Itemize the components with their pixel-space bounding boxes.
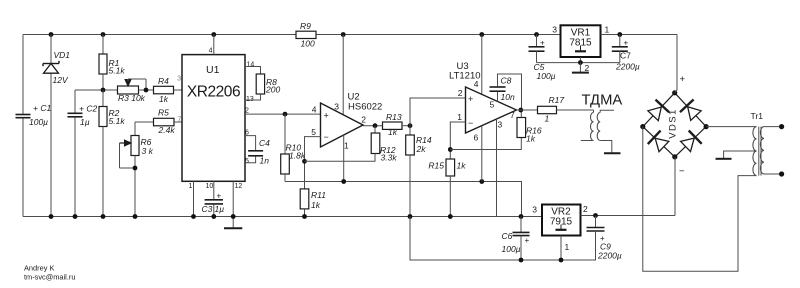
terminal Tr1 secondary top — [779, 124, 784, 129]
wire top rail left segment — [23, 34, 296, 36]
pin number U3 pin1 — [457, 112, 462, 122]
capacitor C7 — [612, 35, 628, 63]
node junction R15 bottom — [448, 214, 453, 219]
ground VR1 — [572, 63, 589, 73]
resistor R14 — [406, 126, 415, 217]
svg-text:2k: 2k — [416, 144, 427, 154]
svg-text:+: + — [540, 39, 545, 48]
label C1 value — [29, 117, 48, 127]
svg-text:2: 2 — [585, 63, 590, 73]
svg-text:200: 200 — [265, 85, 280, 95]
svg-text:+: + — [324, 111, 329, 121]
label U3 minus input — [468, 118, 473, 128]
svg-text:3: 3 — [498, 120, 503, 130]
pin number U1 pin10 — [206, 183, 214, 190]
svg-text:3: 3 — [532, 205, 537, 215]
svg-text:100µ: 100µ — [537, 71, 556, 81]
transformer TDMA primary winding — [581, 110, 594, 141]
text author — [24, 264, 54, 273]
svg-text:5: 5 — [490, 100, 495, 110]
label U2 minus input — [324, 132, 329, 142]
capacitor C3 — [205, 200, 223, 204]
label C9 plus — [600, 234, 605, 243]
resistor R16 — [517, 110, 526, 138]
svg-text:1.8k: 1.8k — [289, 151, 306, 161]
resistor R2 — [99, 90, 107, 217]
svg-text:+ C1: + C1 — [33, 103, 51, 113]
label VR2 — [551, 207, 571, 218]
node junction U3 output — [518, 108, 523, 113]
svg-text:3 k: 3 k — [142, 146, 154, 156]
label R15 — [428, 161, 444, 171]
svg-text:1µ: 1µ — [215, 204, 225, 214]
label bridge plus — [680, 74, 686, 85]
node junction top U2 supply — [341, 32, 346, 37]
svg-text:7: 7 — [510, 110, 515, 120]
svg-text:−: − — [679, 166, 685, 177]
svg-text:U1: U1 — [206, 64, 220, 76]
svg-text:14: 14 — [247, 62, 255, 69]
wire VD1 branch — [50, 35, 52, 217]
node junction U3 pin6 — [479, 179, 484, 184]
label C2 — [79, 104, 97, 114]
label VD1 — [54, 50, 71, 60]
text email — [24, 273, 75, 282]
svg-text:5.1k: 5.1k — [109, 116, 126, 126]
label C3 value — [215, 204, 225, 214]
pin number U3 pin2 — [458, 88, 463, 98]
label R1 — [109, 58, 120, 68]
node junction R3 wiper — [144, 88, 149, 93]
svg-text:tm-svc@mail.ru: tm-svc@mail.ru — [24, 273, 75, 282]
svg-text:Andrey K: Andrey K — [24, 264, 54, 273]
wire feedback rail y181 — [285, 182, 522, 217]
capacitor C2 wires — [74, 90, 76, 217]
label bridge minus — [679, 166, 685, 177]
label C7 value — [615, 62, 640, 72]
node junction minus input R12 — [302, 159, 307, 164]
ground TDMA secondary — [604, 152, 621, 154]
label Tr1 — [751, 111, 764, 121]
label R13 — [386, 112, 402, 122]
label VDS1 — [668, 108, 679, 138]
node junction R6 wiper — [133, 166, 138, 171]
resistor R4 — [154, 86, 182, 94]
resistor R9 — [296, 31, 316, 38]
pin number VR2 pin2 — [583, 204, 588, 214]
pin number U2 pin5 — [311, 127, 316, 137]
resistor R13 — [383, 122, 411, 129]
label R6 — [141, 137, 152, 147]
label R1 value — [109, 66, 126, 76]
label R14 value — [416, 144, 427, 154]
label R13 value — [388, 127, 398, 137]
wire U3 minus input — [450, 122, 465, 159]
pin number VR1 pin3 — [552, 25, 557, 35]
pin number U1 pin3 — [177, 76, 181, 83]
wire VR1 output — [601, 34, 678, 36]
node junction C6 bottom — [519, 258, 524, 263]
svg-text:1k: 1k — [457, 161, 467, 171]
label C4 — [259, 138, 270, 148]
pin number U3 pin6 — [474, 133, 479, 143]
svg-text:R3 10k: R3 10k — [118, 93, 146, 103]
zener diode VD1 — [43, 61, 59, 73]
label C8 value — [501, 92, 515, 102]
pin number U2 pin1 — [344, 141, 349, 151]
wire bridge left loop — [643, 127, 757, 272]
transformer Tr1 core — [759, 127, 761, 176]
potentiometer R3 — [118, 79, 147, 94]
node junction R14 bottom — [408, 214, 413, 219]
wire U3 pin3 bottom — [496, 119, 498, 216]
svg-text:4: 4 — [312, 105, 317, 115]
label C6 value — [502, 244, 521, 254]
label VR1 part — [569, 38, 592, 49]
svg-text:R9: R9 — [300, 21, 311, 31]
node junction R13 R14 U3 input — [408, 123, 413, 128]
node junction C7 top — [617, 32, 622, 37]
wire U2 pin1 bottom — [343, 135, 345, 182]
label U1 part number — [187, 84, 240, 101]
svg-text:2.4k: 2.4k — [158, 125, 176, 135]
label R3 — [118, 93, 146, 103]
label R15 value — [457, 161, 467, 171]
label U2 part number — [348, 102, 382, 113]
pin number U3 pin4 — [474, 79, 479, 89]
svg-text:2: 2 — [458, 88, 463, 98]
label VR1 — [571, 28, 591, 39]
label C6 — [502, 231, 513, 241]
wire U3 pin6 bottom — [481, 126, 483, 182]
node junction VR2 pin1 — [559, 258, 564, 263]
svg-text:1k: 1k — [388, 127, 398, 137]
node junction U2 output — [373, 123, 378, 128]
wire R13 node to U3 plus — [410, 98, 466, 126]
wire VR2 pin1 — [560, 236, 562, 261]
node junction bridge right — [704, 124, 709, 129]
svg-text:1k: 1k — [159, 94, 169, 104]
node junction C6 top — [519, 214, 524, 219]
svg-text:100: 100 — [301, 39, 315, 49]
label VR2 part — [550, 217, 573, 228]
label R12 — [380, 145, 396, 155]
wire R3 to R4 — [139, 89, 154, 91]
label R16 — [526, 126, 542, 136]
svg-text:100µ: 100µ — [29, 117, 48, 127]
resistor R15 — [446, 159, 455, 217]
label R10 — [286, 143, 302, 153]
diode bridge VDS1 bottom-left diode — [643, 127, 675, 157]
node junction top U1 pin4 — [211, 32, 216, 37]
label R5 value — [158, 125, 176, 135]
label R16 value — [526, 134, 536, 144]
svg-text:3: 3 — [334, 102, 339, 112]
svg-text:VDS1: VDS1 — [668, 108, 679, 138]
svg-text:1k: 1k — [311, 200, 321, 210]
svg-text:10n: 10n — [501, 92, 515, 102]
svg-text:Tr1: Tr1 — [751, 111, 764, 121]
svg-text:−: − — [324, 132, 329, 142]
svg-text:2200µ: 2200µ — [597, 251, 622, 261]
node junction U1 pin10 — [211, 214, 216, 219]
label R17 value — [545, 114, 550, 124]
resistor R12 — [305, 126, 380, 162]
svg-text:C7: C7 — [620, 51, 631, 61]
wire left rail lower — [22, 118, 24, 217]
node junction bottom VD1 — [49, 214, 54, 219]
svg-text:+: + — [624, 39, 629, 48]
label R6 value — [142, 146, 154, 156]
wire U1 pin10 bottom — [213, 181, 215, 216]
pin number U3 pin5 — [490, 100, 495, 110]
pin number U3 pin7 — [510, 110, 515, 120]
wire C5 C7 ground bus — [537, 62, 620, 64]
svg-text:5: 5 — [245, 158, 249, 165]
svg-text:1: 1 — [565, 242, 570, 252]
svg-text:12V: 12V — [53, 75, 69, 85]
resistor R8 — [245, 67, 265, 101]
wire bottom ground rail — [23, 216, 542, 218]
svg-text:C3: C3 — [202, 204, 213, 214]
svg-text:1k: 1k — [526, 134, 536, 144]
label R8 — [266, 77, 277, 87]
op-amp U2 — [321, 103, 364, 147]
transformer Tr1 primary winding — [753, 127, 757, 176]
label U2 — [348, 92, 360, 103]
capacitor C2 — [68, 113, 83, 117]
svg-text:10: 10 — [206, 183, 214, 190]
svg-text:R17: R17 — [549, 95, 565, 105]
svg-text:4: 4 — [474, 79, 479, 89]
svg-text:+: + — [680, 74, 686, 85]
pin number U2 pin2 — [361, 115, 366, 125]
pin number U1 pin13 — [246, 96, 254, 103]
svg-text:R15: R15 — [428, 161, 444, 171]
capacitor C1 — [16, 115, 31, 118]
label R5 — [158, 108, 169, 118]
pin number VR1 pin2 — [585, 63, 590, 73]
svg-text:3: 3 — [552, 25, 557, 35]
svg-text:6: 6 — [474, 133, 479, 143]
label R2 value — [109, 116, 126, 126]
svg-text:+: + — [525, 236, 530, 245]
label U2 plus input — [324, 111, 329, 121]
label R4 value — [159, 94, 169, 104]
label R12 value — [381, 153, 398, 163]
pin number U3 pin3 — [498, 120, 503, 130]
pin number VR1 pin1 — [605, 25, 610, 35]
svg-text:1: 1 — [457, 112, 462, 122]
node junction U2 pin1 — [341, 179, 346, 184]
regulator VR2 box — [542, 205, 581, 236]
label C2 value — [80, 117, 90, 127]
node junction top U3 supply — [479, 32, 484, 37]
capacitor C8 wires — [498, 74, 522, 110]
node junction U1 pin1 — [191, 214, 196, 219]
pin number U1 pin2 — [245, 108, 249, 115]
wire VR2 output — [581, 215, 676, 217]
diode bridge VDS1 bottom-right diode — [675, 127, 706, 157]
node junction top VD1 — [49, 32, 54, 37]
svg-text:XR2206: XR2206 — [187, 84, 240, 101]
node junction R1/R2 — [101, 88, 106, 93]
label C3 plus — [217, 192, 222, 201]
svg-text:−: − — [468, 118, 473, 128]
label R9 value — [301, 39, 315, 49]
regulator VR1 box — [561, 25, 601, 57]
wire U1 pin2 to U2 — [245, 113, 321, 115]
svg-text:R13: R13 — [386, 112, 402, 122]
svg-text:+: + — [217, 192, 222, 201]
wire U3 output — [517, 109, 538, 111]
svg-text:12: 12 — [235, 183, 243, 190]
svg-text:1: 1 — [545, 114, 550, 124]
label U3 — [457, 61, 469, 72]
label R4 — [158, 76, 169, 86]
wire U1 pin1 bottom — [193, 181, 195, 216]
label C7 — [620, 51, 631, 61]
node junction VR1 gnd — [578, 60, 583, 65]
svg-text:C8: C8 — [501, 76, 512, 86]
svg-text:R5: R5 — [158, 108, 169, 118]
regulator VR1 gnd tab — [575, 46, 586, 52]
svg-text:3: 3 — [177, 76, 181, 83]
svg-text:R11: R11 — [311, 190, 326, 200]
resistor R1 — [99, 35, 107, 91]
node junction bottom C2 — [73, 214, 78, 219]
resistor R11 — [300, 189, 309, 217]
label C3 — [202, 204, 213, 214]
pin number U1 pin1 — [189, 183, 193, 190]
wire U1 pin4 top — [213, 35, 215, 55]
svg-text:3.3k: 3.3k — [381, 153, 398, 163]
svg-text:2: 2 — [245, 108, 249, 115]
label R17 — [549, 95, 565, 105]
ground under U1 pin12 — [224, 227, 242, 229]
svg-text:C4: C4 — [259, 138, 270, 148]
label C6 plus — [525, 236, 530, 245]
wire U1 pin12 bottom — [232, 181, 234, 227]
label C9 value — [597, 251, 622, 261]
op-amp U3 — [466, 87, 517, 133]
transformer Tr1 secondary winding — [760, 127, 781, 174]
node junction bottom R2 — [101, 214, 106, 219]
potentiometer R6 — [131, 122, 139, 217]
svg-text:1: 1 — [344, 141, 349, 151]
label VD1 value — [53, 75, 69, 85]
pin number U1 pin5 — [245, 158, 249, 165]
capacitor C4 — [248, 151, 263, 156]
label C8 — [501, 76, 512, 86]
label TDMA — [582, 92, 623, 108]
wire bridge feed — [675, 35, 677, 93]
wire U2 output — [363, 125, 383, 127]
wire left rail upper — [22, 35, 24, 115]
node junction top C5 — [534, 32, 539, 37]
op-amp U1 XR2206 box — [182, 55, 245, 182]
pin number U1 pin4 — [209, 48, 213, 55]
node junction bottom R6 — [133, 214, 138, 219]
svg-text:100µ: 100µ — [502, 244, 521, 254]
capacitor C6 — [513, 217, 530, 261]
svg-text:ТДМА: ТДМА — [582, 92, 623, 108]
label U1 — [206, 64, 220, 76]
svg-text:2: 2 — [361, 115, 366, 125]
svg-text:VD1: VD1 — [54, 50, 71, 60]
svg-text:4: 4 — [209, 48, 213, 55]
node junction top R1 — [101, 32, 106, 37]
label R10 value — [289, 151, 306, 161]
wire VR1 pin2 — [579, 57, 581, 63]
svg-text:1µ: 1µ — [80, 117, 90, 127]
pin number U1 pin12 — [235, 183, 243, 190]
wire U2 minus input — [305, 137, 321, 189]
node junction C9 top — [593, 213, 598, 218]
wire negative rail lower — [410, 217, 596, 261]
label U3 plus input — [468, 94, 473, 104]
label C5 — [534, 62, 545, 72]
label R9 — [300, 21, 311, 31]
label R2 — [109, 108, 120, 118]
svg-text:R4: R4 — [158, 76, 169, 86]
pin number U2 pin3 — [334, 102, 339, 112]
wire bridge bottom to VR2 — [674, 157, 676, 216]
svg-text:1n: 1n — [260, 156, 270, 166]
node junction bridge bottom — [672, 154, 677, 159]
wire U3 supply pin4 — [481, 35, 483, 95]
svg-text:+: + — [468, 94, 473, 104]
label U3 part number — [449, 71, 481, 82]
regulator VR2 gnd tab — [556, 225, 567, 230]
capacitor C4 wires — [245, 136, 256, 163]
transformer TDMA secondary winding — [597, 110, 614, 152]
capacitor C5 — [529, 35, 545, 63]
wire top rail right segment — [316, 34, 561, 36]
label C5 value — [537, 71, 556, 81]
svg-text:1: 1 — [189, 183, 193, 190]
node junction U3 feedback — [448, 147, 453, 152]
wire node R1-R2-C2-R3 — [75, 89, 118, 91]
capacitor C8 — [490, 87, 506, 91]
terminal Tr1 secondary bottom — [779, 171, 784, 176]
resistor R17 — [538, 106, 594, 113]
capacitor C9 — [587, 216, 605, 261]
label C5 plus — [540, 39, 545, 48]
diode bridge VDS1 top-left diode — [643, 93, 675, 127]
svg-text:7: 7 — [177, 116, 181, 123]
label R8 value — [265, 85, 280, 95]
ground Tr1 primary tap — [716, 151, 757, 159]
svg-text:1: 1 — [605, 25, 610, 35]
label C4 value — [260, 156, 270, 166]
node junction U1 pin12 — [231, 214, 236, 219]
svg-text:5.1k: 5.1k — [109, 66, 126, 76]
label R11 — [311, 190, 326, 200]
label R14 — [416, 135, 432, 145]
label C1 — [33, 103, 51, 113]
node junction bridge top — [672, 90, 677, 95]
label C7 plus — [624, 39, 629, 48]
node junction R11 bottom — [302, 214, 307, 219]
resistor R5 — [135, 118, 182, 126]
label C9 — [600, 242, 611, 252]
pin number U1 pin14 — [247, 62, 255, 69]
pin number U2 pin4 — [312, 105, 317, 115]
diode bridge VDS1 top-right diode — [675, 93, 706, 127]
wire U2 supply pin3 — [342, 35, 344, 115]
node junction bridge left — [640, 124, 645, 129]
